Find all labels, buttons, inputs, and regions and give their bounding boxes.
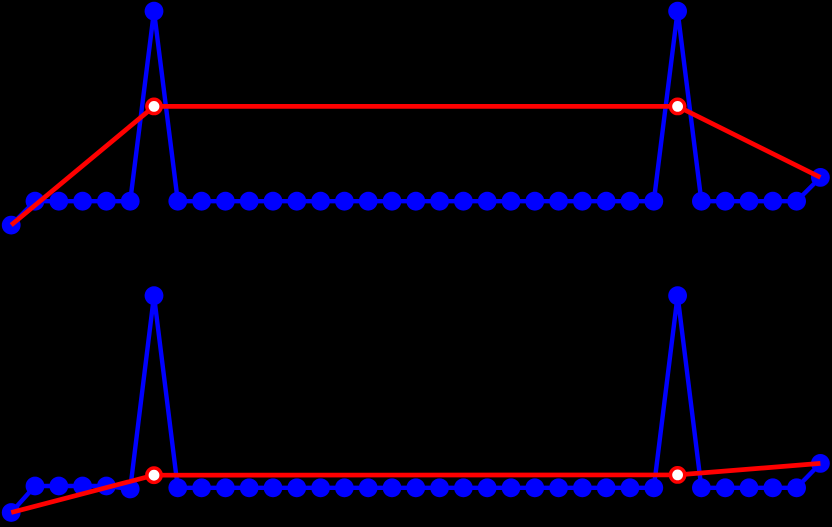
top plot: blue data series line: [11, 11, 820, 225]
bottom plot: blue data series line: [11, 296, 820, 513]
top plot: blue data point markers: [2, 2, 830, 235]
top plot: red spike marker 2 (white-filled circle at second spike): [670, 99, 684, 113]
bottom plot: blue data point markers: [2, 286, 830, 522]
bottom plot: red spike marker 2 (white-filled circle at second spike): [670, 468, 684, 482]
top plot: red spike marker 1 (white-filled circle at first spike): [147, 99, 161, 113]
bottom plot: red baseline/envelope line: [11, 463, 820, 512]
bottom plot: red spike marker 1 (white-filled circle at first spike): [147, 468, 161, 482]
top plot: red baseline/envelope line: [11, 106, 820, 225]
